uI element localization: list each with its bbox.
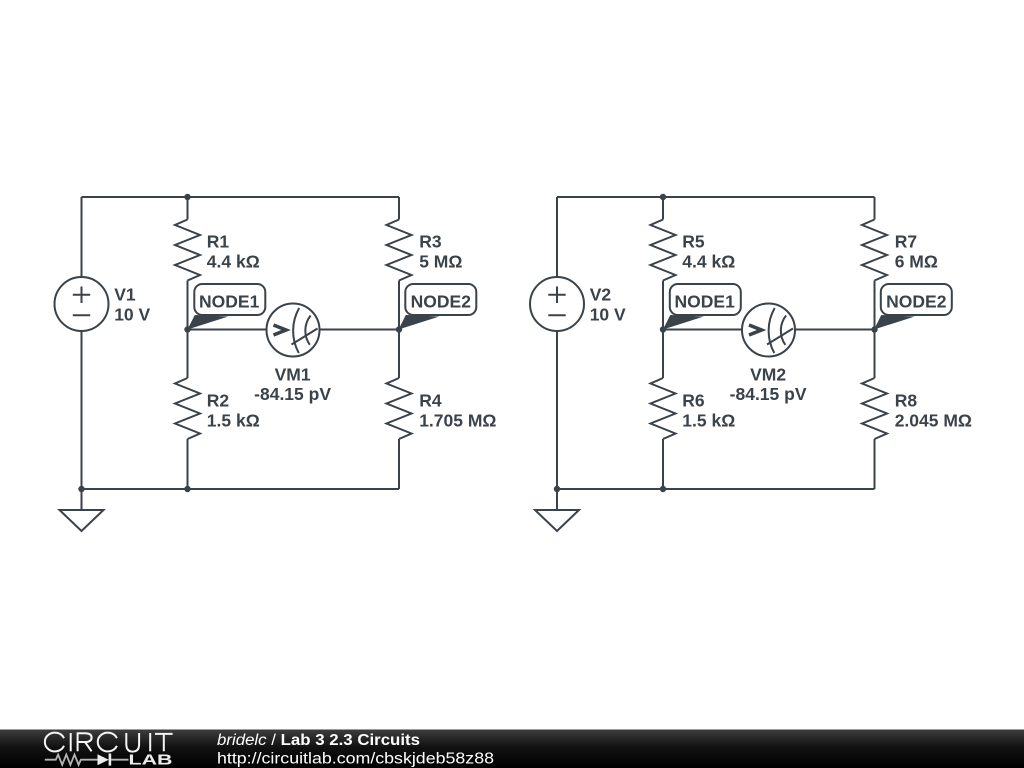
svg-text:2.045 MΩ: 2.045 MΩ [895,411,972,431]
svg-text:V2: V2 [590,285,612,305]
svg-text:V1: V1 [114,285,136,305]
svg-text:4.4 kΩ: 4.4 kΩ [682,252,735,272]
svg-text:LAB: LAB [129,752,173,768]
svg-text:http://circuitlab.com/cbskjdeb: http://circuitlab.com/cbskjdeb58z88 [217,751,494,768]
svg-text:R4: R4 [419,391,442,411]
svg-text:R8: R8 [895,391,918,411]
svg-text:1.705 MΩ: 1.705 MΩ [419,411,496,431]
svg-text:1.5 kΩ: 1.5 kΩ [207,411,260,431]
svg-text:VM2: VM2 [750,364,786,384]
svg-text:5 MΩ: 5 MΩ [419,252,462,272]
svg-text:bridelc / Lab 3 2.3 Circuits: bridelc / Lab 3 2.3 Circuits [217,732,420,749]
svg-text:R2: R2 [207,391,230,411]
svg-text:6 MΩ: 6 MΩ [895,252,938,272]
svg-text:1.5 kΩ: 1.5 kΩ [682,411,735,431]
svg-text:R5: R5 [682,232,705,252]
svg-text:-84.15 pV: -84.15 pV [254,384,331,404]
svg-text:4.4 kΩ: 4.4 kΩ [207,252,260,272]
svg-text:VM1: VM1 [275,364,311,384]
svg-text:R6: R6 [682,391,705,411]
svg-text:R1: R1 [207,232,230,252]
svg-text:R7: R7 [895,232,917,252]
svg-text:-84.15 pV: -84.15 pV [730,384,807,404]
svg-text:10 V: 10 V [590,305,626,325]
svg-text:R3: R3 [419,232,442,252]
svg-text:10 V: 10 V [114,305,150,325]
